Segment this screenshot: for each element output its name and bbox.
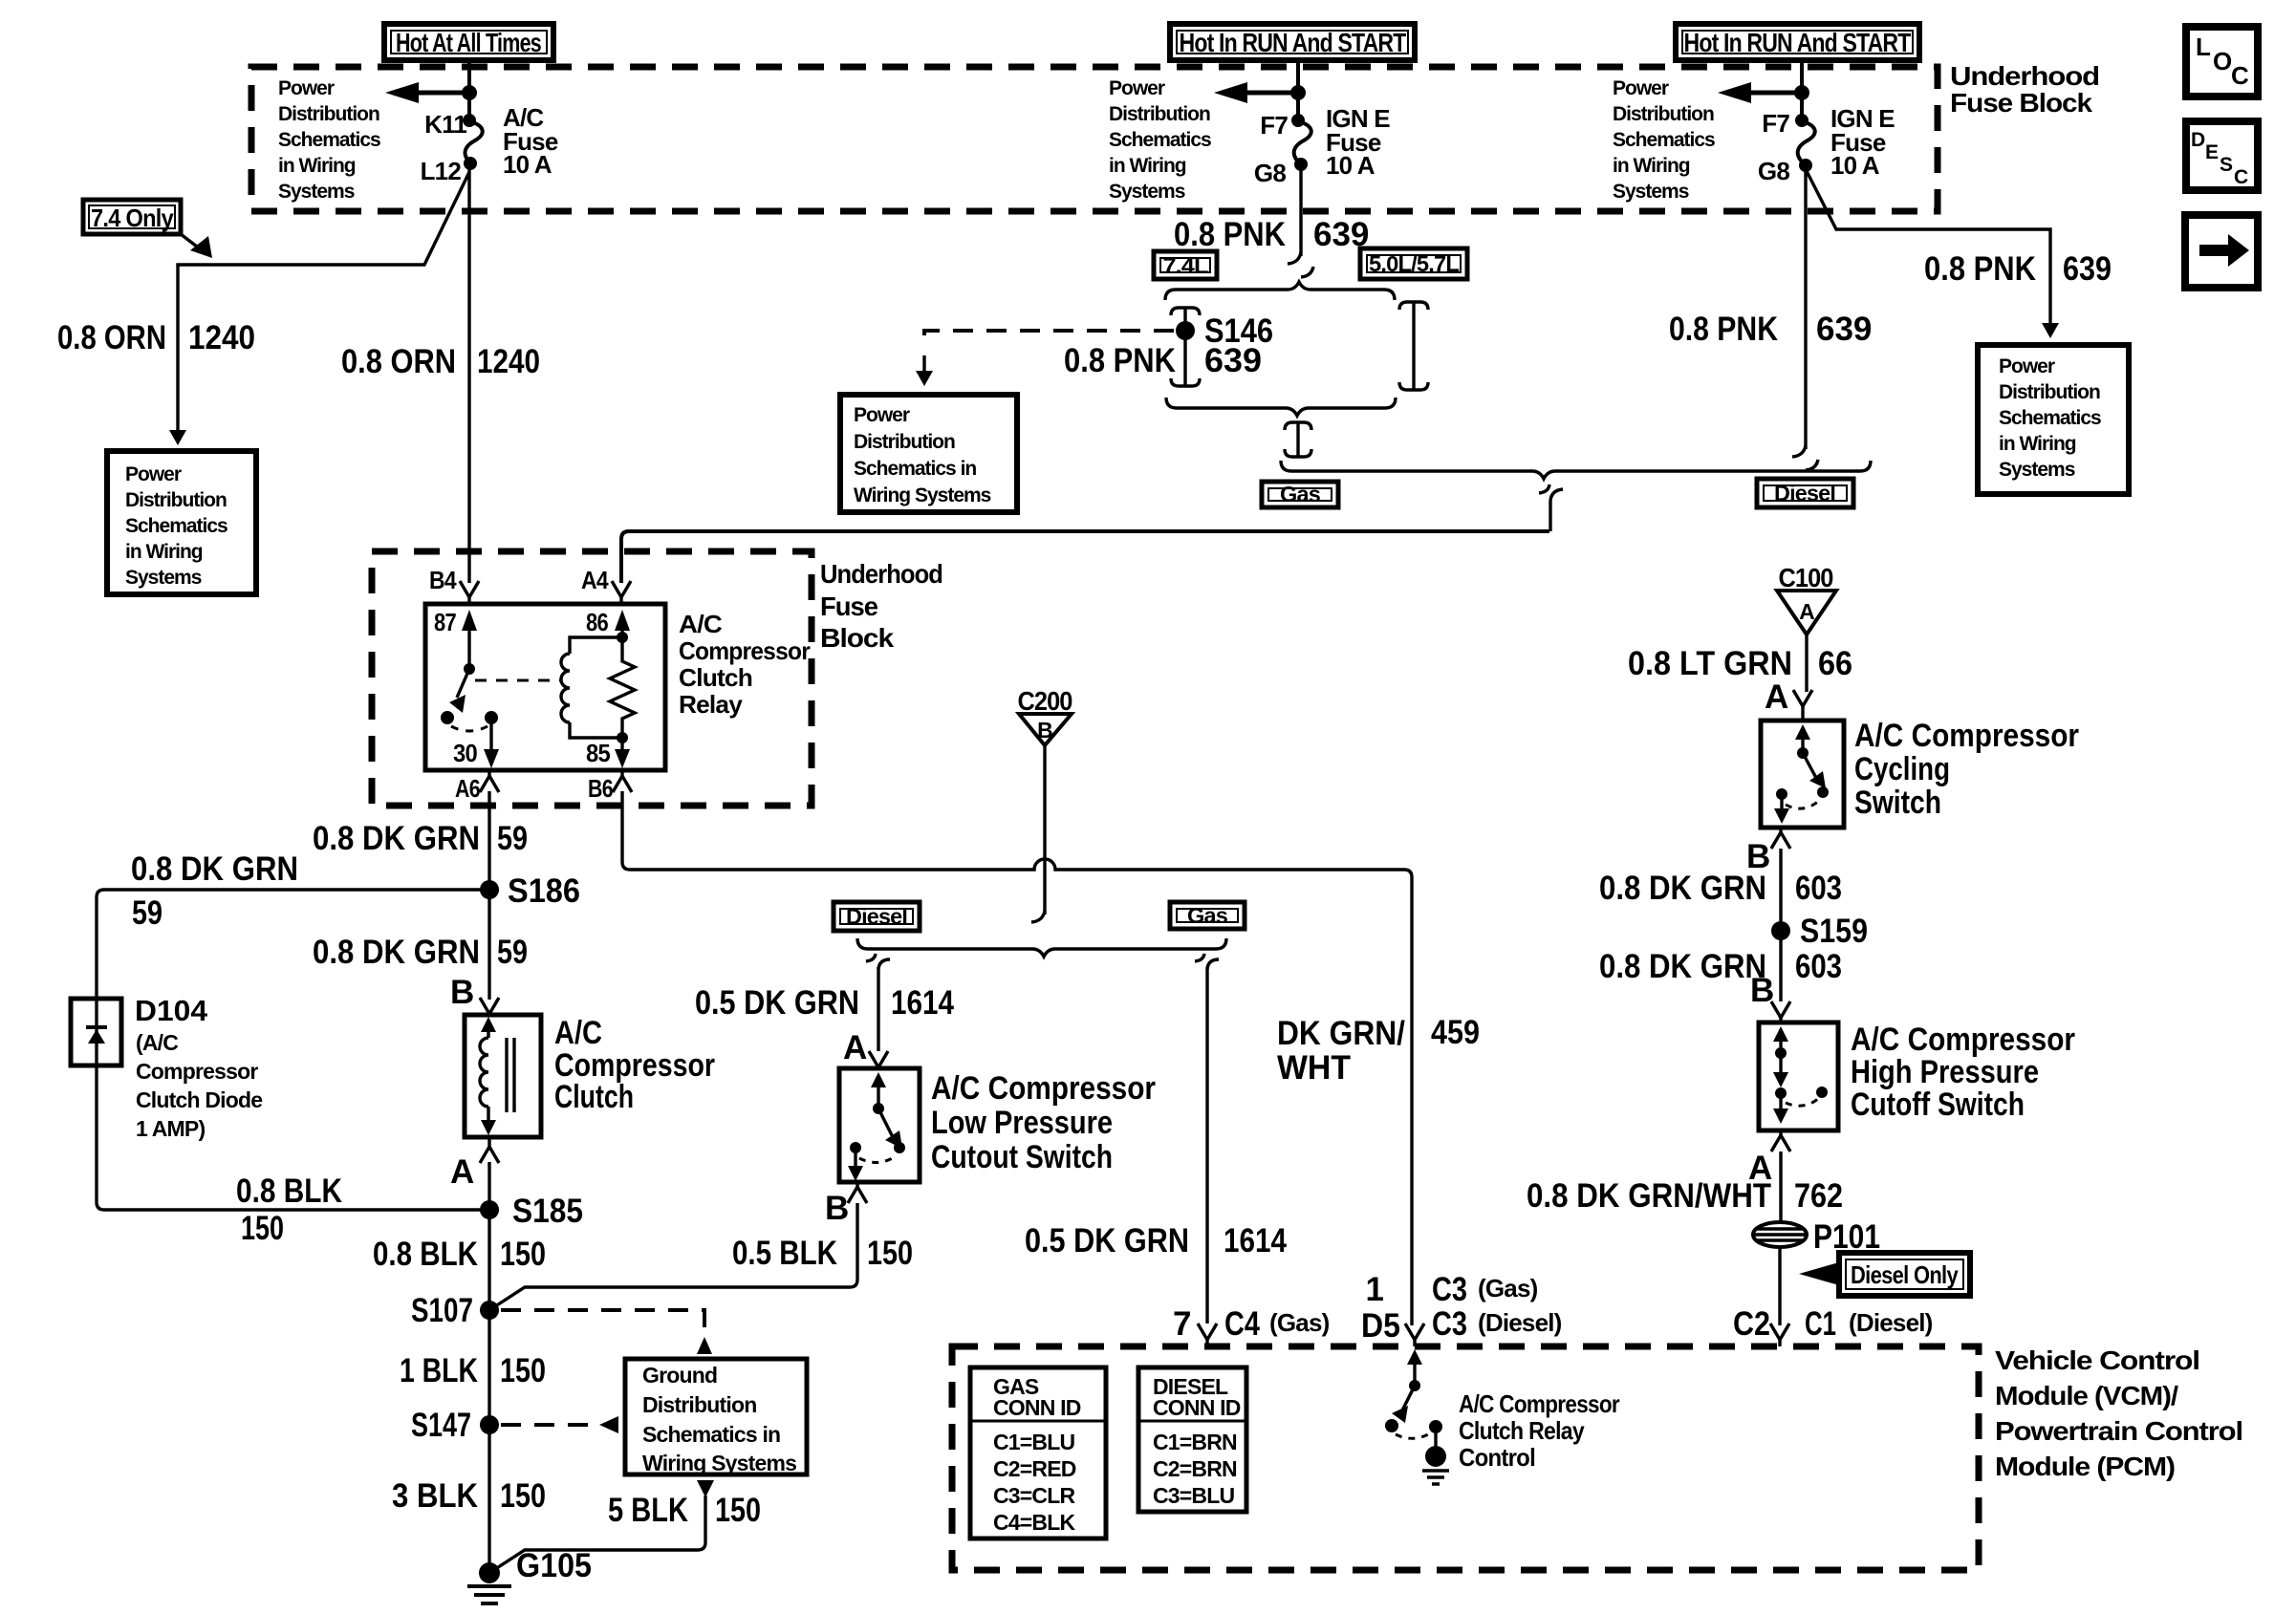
svg-text:Gas: Gas — [1280, 482, 1320, 506]
LP switch contacts — [848, 1072, 905, 1181]
wire cycling B to S159 — [1779, 849, 1782, 931]
wire clutch A to S185 — [487, 1162, 490, 1210]
svg-text:603: 603 — [1795, 948, 1842, 985]
VCM/PCM dashed box — [952, 1346, 1979, 1570]
svg-text:0.8 BLK: 0.8 BLK — [373, 1236, 478, 1273]
wire C200 down with break curl — [1031, 745, 1045, 922]
svg-text:Schematics: Schematics — [278, 129, 380, 151]
svg-text:85: 85 — [586, 739, 610, 767]
engine option bottom brace — [1166, 398, 1396, 416]
power distribution schematics box (S146) — [840, 395, 1017, 512]
5.0L/5.7L label box — [1360, 248, 1467, 279]
LOC box — [2186, 27, 2258, 97]
svg-text:0.8 ORN: 0.8 ORN — [57, 319, 166, 356]
wire label 0.8 BLK / 150 (diode branch) — [236, 1173, 342, 1247]
wire label 1 BLK 150 — [400, 1352, 546, 1389]
svg-text:C4: C4 — [1224, 1305, 1260, 1343]
svg-text:G105: G105 — [516, 1547, 592, 1584]
Diesel label box (top) — [1757, 479, 1853, 507]
relay coil — [561, 637, 622, 738]
LP switch pin B — [825, 1182, 867, 1227]
diesel branch wire with curl to LP switch — [866, 954, 890, 1051]
A/C compressor clutch relay box — [425, 604, 665, 770]
wire from Hot At All Times to A/C fuse — [467, 60, 471, 120]
svg-text:0.8 DK GRN: 0.8 DK GRN — [1599, 870, 1766, 907]
A/C Compressor Clutch Relay label — [679, 610, 811, 719]
svg-text:A: A — [843, 1029, 867, 1066]
svg-text:0.8 PNK: 0.8 PNK — [1924, 250, 2036, 288]
A/C compressor cycling switch box — [1761, 721, 1844, 828]
wire gas branch down to horizontal feed — [1539, 484, 1563, 531]
svg-text:Power: Power — [1613, 77, 1669, 99]
arrow from 7.4 Only box to wire — [181, 234, 212, 258]
wire label 0.8 DK GRN/WHT 762 — [1527, 1177, 1843, 1215]
svg-text:E: E — [2205, 141, 2219, 163]
7.4L label box — [1154, 251, 1217, 279]
wire label 0.8 PNK 639 (at S146) — [1064, 342, 1262, 379]
wire label 0.8 ORN 1240 (7.4 branch) — [57, 319, 255, 356]
diesel/gas selection brace (C200) — [857, 938, 1226, 957]
engine option top brace — [1165, 282, 1395, 300]
svg-text:C4=BLK: C4=BLK — [993, 1510, 1075, 1535]
wire label 0.5 DK GRN 1614 (gas) — [1025, 1222, 1287, 1259]
A/C Compressor Cycling Switch label — [1854, 718, 2079, 821]
wire G8 right fuse down with break curls — [1792, 169, 1818, 470]
svg-text:(A/C: (A/C — [136, 1030, 178, 1055]
clutch pin B — [450, 974, 499, 1014]
svg-text:Schematics: Schematics — [1109, 129, 1211, 151]
relay coil dashed link — [475, 679, 560, 682]
svg-text:Distribution: Distribution — [642, 1392, 756, 1417]
Diesel Only label box with arrow — [1799, 1253, 1970, 1296]
svg-text:Systems: Systems — [1109, 181, 1185, 203]
svg-text:Diesel: Diesel — [1774, 481, 1835, 506]
svg-text:Clutch: Clutch — [679, 663, 752, 692]
wire P101 to VCM C2 — [1778, 1248, 1781, 1325]
wire from Hot In RUN And START to IGN E fuse (right) — [1800, 60, 1804, 120]
svg-text:Cutout Switch: Cutout Switch — [931, 1139, 1113, 1175]
svg-text:Systems: Systems — [125, 567, 202, 589]
svg-text:in Wiring: in Wiring — [125, 541, 203, 563]
svg-text:Module (VCM)/: Module (VCM)/ — [1995, 1381, 2178, 1410]
svg-text:Schematics: Schematics — [125, 515, 227, 537]
Underhood Fuse Block text (relay) — [820, 559, 942, 653]
svg-text:in Wiring: in Wiring — [1613, 155, 1690, 177]
svg-text:Gas: Gas — [1187, 903, 1227, 928]
A/C compressor clutch box — [465, 1015, 541, 1137]
gas branch wire with curl down to VCM C4 — [1195, 954, 1219, 1323]
svg-text:762: 762 — [1794, 1177, 1843, 1215]
svg-text:Distribution: Distribution — [1109, 103, 1210, 125]
svg-text:1614: 1614 — [891, 984, 954, 1022]
svg-text:0.8 BLK: 0.8 BLK — [236, 1173, 342, 1210]
svg-text:0.5 DK GRN: 0.5 DK GRN — [695, 984, 859, 1022]
svg-text:CONN ID: CONN ID — [1153, 1395, 1241, 1420]
wire S107 to S147 — [487, 1310, 490, 1425]
Hot At All Times label box — [384, 24, 553, 60]
ground G105 — [467, 1547, 592, 1603]
svg-text:B: B — [825, 1190, 849, 1227]
svg-text:Hot In RUN And START: Hot In RUN And START — [1180, 28, 1407, 57]
cycling switch pin B — [1746, 828, 1790, 875]
svg-text:Compressor: Compressor — [679, 636, 811, 665]
power distribution text (left fuse) — [278, 77, 380, 203]
svg-text:1: 1 — [1366, 1271, 1384, 1308]
svg-text:A: A — [1765, 678, 1788, 716]
svg-text:(Diesel): (Diesel) — [1478, 1308, 1562, 1337]
svg-text:DK GRN/: DK GRN/ — [1277, 1015, 1405, 1052]
HP switch dashed arc — [1786, 1099, 1818, 1106]
svg-text:S159: S159 — [1800, 913, 1868, 950]
svg-text:(Diesel): (Diesel) — [1849, 1308, 1933, 1337]
svg-text:0.8 PNK: 0.8 PNK — [1669, 311, 1778, 348]
A/C compressor low pressure cutout switch box — [839, 1068, 920, 1182]
svg-text:1 BLK: 1 BLK — [400, 1352, 478, 1389]
svg-text:O: O — [2213, 47, 2232, 75]
svg-text:C: C — [2231, 61, 2249, 90]
svg-text:87: 87 — [434, 608, 456, 636]
Underhood Fuse Block title text — [1950, 61, 2099, 118]
svg-text:Fuse: Fuse — [820, 592, 877, 621]
svg-text:Schematics: Schematics — [1613, 129, 1715, 151]
svg-text:Distribution: Distribution — [1613, 103, 1714, 125]
A/C Compressor Low Pressure Cutout Switch label — [931, 1070, 1156, 1175]
A/C Compressor Clutch Relay Control label — [1459, 1389, 1620, 1472]
svg-text:10 A: 10 A — [1830, 151, 1880, 180]
svg-text:Underhood: Underhood — [820, 559, 942, 589]
svg-text:C2=BRN: C2=BRN — [1153, 1456, 1237, 1481]
svg-text:7: 7 — [1173, 1305, 1191, 1343]
svg-text:Power: Power — [278, 77, 335, 99]
svg-text:A6: A6 — [455, 774, 480, 803]
svg-text:Schematics in: Schematics in — [854, 458, 976, 480]
Gas label box (C200) — [1170, 902, 1245, 929]
wire S186 to clutch B — [487, 890, 490, 1000]
clutch pin A — [450, 1137, 499, 1191]
arrow to power distribution (left fuse) — [385, 82, 477, 103]
svg-text:5 BLK: 5 BLK — [608, 1492, 688, 1529]
Diesel label box (C200) — [834, 902, 920, 931]
7.4L branch connector brackets with S146 — [1171, 308, 1200, 386]
svg-text:1 AMP): 1 AMP) — [136, 1116, 205, 1141]
svg-text:C100: C100 — [1779, 563, 1833, 592]
svg-text:7.4L: 7.4L — [1163, 253, 1209, 278]
svg-text:0.8 PNK: 0.8 PNK — [1064, 342, 1176, 379]
relay pin A4 — [581, 566, 631, 604]
svg-text:C3: C3 — [1432, 1271, 1467, 1308]
power distribution schematics box (7.4 branch) — [107, 451, 256, 594]
A/C Compressor High Pressure Cutoff Switch label — [1851, 1022, 2075, 1123]
wire label 0.8 DK GRN 59 (lower) — [313, 934, 528, 971]
clutch core bars — [507, 1038, 514, 1112]
power distribution text (right fuse) — [1613, 77, 1715, 203]
svg-text:603: 603 — [1795, 870, 1842, 907]
svg-text:B: B — [450, 974, 474, 1011]
GAS CONN ID table — [970, 1367, 1106, 1539]
svg-text:A/C Compressor: A/C Compressor — [931, 1070, 1156, 1107]
svg-text:F7: F7 — [1762, 109, 1789, 138]
svg-text:Fuse Block: Fuse Block — [1950, 88, 2093, 118]
svg-text:Control: Control — [1459, 1443, 1535, 1472]
svg-text:0.8 ORN: 0.8 ORN — [341, 343, 456, 380]
A/C compressor clutch relay control driver — [1385, 1349, 1449, 1484]
svg-text:G8: G8 — [1758, 157, 1789, 185]
7.4 Only label box — [83, 200, 181, 234]
grommet P101 — [1753, 1218, 1880, 1256]
wire B6 to DK GRN/WHT column with hop over C200 wire — [622, 791, 1412, 1325]
relay pin 86 — [586, 608, 630, 643]
svg-text:0.8 LT GRN: 0.8 LT GRN — [1628, 645, 1792, 682]
wire S159 to HP switch — [1779, 931, 1782, 1001]
svg-text:0.8 DK GRN/WHT: 0.8 DK GRN/WHT — [1527, 1177, 1771, 1215]
DESC box — [2186, 121, 2258, 190]
A/C Compressor Clutch label — [554, 1015, 715, 1115]
clutch coil — [480, 1017, 496, 1135]
wire label 0.5 DK GRN 1614 (diesel) — [695, 984, 954, 1022]
svg-text:F7: F7 — [1260, 111, 1288, 140]
wire label 0.8 ORN 1240 (main) — [341, 343, 540, 380]
cycling switch pin A — [1765, 678, 1812, 721]
wire label 0.8 DK GRN 603 (lower) — [1599, 948, 1842, 985]
splice S185 — [480, 1193, 583, 1230]
svg-text:C200: C200 — [1018, 686, 1072, 716]
svg-text:S: S — [2220, 154, 2233, 176]
relay pin 87 contact arm — [434, 608, 477, 724]
relay pin 30 — [453, 711, 499, 768]
splice S146 — [1176, 312, 1273, 350]
svg-text:Power: Power — [1999, 355, 2055, 377]
wire label 0.8 BLK 150 — [373, 1236, 546, 1273]
svg-text:Clutch Diode: Clutch Diode — [136, 1087, 262, 1112]
svg-text:L12: L12 — [421, 157, 462, 185]
svg-text:3 BLK: 3 BLK — [392, 1477, 478, 1515]
splice S159 — [1771, 913, 1868, 950]
svg-text:D: D — [2191, 129, 2205, 151]
dashed S107 to ground distribution box — [501, 1310, 712, 1354]
svg-text:L: L — [2196, 32, 2211, 61]
svg-text:C1=BLU: C1=BLU — [993, 1430, 1074, 1454]
svg-text:D5: D5 — [1361, 1307, 1400, 1345]
ground distribution schematics box — [625, 1359, 807, 1475]
VCM pin 7 C4 (Gas) — [1173, 1305, 1330, 1346]
svg-text:86: 86 — [586, 608, 608, 636]
splice S107 — [411, 1292, 499, 1329]
wire S147 to G105 — [487, 1425, 490, 1573]
wire label 0.8 DK GRN 603 (upper) — [1599, 870, 1842, 907]
svg-text:C3=BLU: C3=BLU — [1153, 1483, 1234, 1508]
svg-text:Power: Power — [1109, 77, 1165, 99]
IGN E fuse F7-G8 (middle) — [1254, 104, 1390, 187]
svg-text:459: 459 — [1431, 1014, 1480, 1051]
svg-text:A/C Compressor: A/C Compressor — [1459, 1389, 1620, 1418]
svg-text:A/C Compressor: A/C Compressor — [1854, 718, 2079, 754]
svg-text:Hot At All Times: Hot At All Times — [396, 28, 541, 57]
svg-text:B6: B6 — [588, 774, 613, 803]
wire label 0.8 PNK 639 (right fuse main) — [1669, 311, 1872, 348]
svg-text:B4: B4 — [429, 566, 457, 594]
splice S147 — [411, 1407, 499, 1444]
svg-text:in Wiring: in Wiring — [1109, 155, 1186, 177]
svg-text:150: 150 — [867, 1235, 913, 1272]
svg-text:Underhood: Underhood — [1950, 61, 2099, 91]
wire L12 down to relay B4 — [467, 167, 470, 583]
svg-text:High Pressure: High Pressure — [1851, 1054, 2039, 1090]
svg-text:0.8 DK GRN: 0.8 DK GRN — [1599, 948, 1766, 985]
connector C200 — [1018, 686, 1072, 745]
svg-text:Ground: Ground — [642, 1363, 717, 1388]
arrow to power distribution (right fuse) — [1718, 82, 1809, 103]
svg-text:Cutoff Switch: Cutoff Switch — [1851, 1087, 2025, 1123]
relay resistor — [610, 637, 635, 743]
svg-text:C2=RED: C2=RED — [993, 1456, 1076, 1481]
A/C fuse K11-L12 — [421, 103, 558, 185]
svg-text:0.8 DK GRN: 0.8 DK GRN — [131, 850, 298, 888]
svg-text:7.4 Only: 7.4 Only — [91, 204, 174, 232]
svg-text:Vehicle Control: Vehicle Control — [1995, 1345, 2199, 1375]
A/C compressor high pressure cutoff switch box — [1759, 1022, 1838, 1130]
svg-text:Diesel Only: Diesel Only — [1851, 1260, 1959, 1289]
underhood fuse block relay dashed box — [372, 551, 812, 806]
svg-text:5.0L/5.7L: 5.0L/5.7L — [1369, 251, 1460, 276]
svg-text:Clutch Relay: Clutch Relay — [1459, 1416, 1585, 1445]
svg-text:(Gas): (Gas) — [1269, 1308, 1330, 1337]
svg-text:A/C: A/C — [554, 1015, 602, 1051]
svg-text:1614: 1614 — [1224, 1222, 1287, 1259]
svg-text:in Wiring: in Wiring — [1999, 433, 2076, 455]
right fuse branch diagonal to power distribution — [1806, 169, 2059, 338]
svg-text:C3: C3 — [1432, 1305, 1467, 1343]
wire S185 to S107 — [487, 1210, 490, 1310]
svg-text:C3=CLR: C3=CLR — [993, 1483, 1075, 1508]
svg-text:150: 150 — [241, 1210, 284, 1247]
wire label 0.8 PNK 639 (middle fuse) — [1174, 216, 1369, 253]
VCM pin D5 C3 — [1361, 1271, 1562, 1346]
svg-text:639: 639 — [1816, 311, 1872, 348]
power distribution schematics box (right) — [1978, 345, 2129, 494]
svg-text:(Gas): (Gas) — [1478, 1274, 1538, 1302]
svg-text:Switch: Switch — [1854, 785, 1941, 821]
svg-text:C1: C1 — [1805, 1305, 1836, 1343]
wire HP A to P101 — [1779, 1151, 1782, 1221]
svg-text:B: B — [1037, 718, 1052, 742]
wire S186 to diode branch — [97, 890, 489, 999]
svg-text:Cycling: Cycling — [1854, 751, 1950, 787]
svg-text:S147: S147 — [411, 1407, 471, 1444]
inline connector pair below braces — [1285, 422, 1311, 457]
ground box bottom arrow and 5 BLK 150 wire — [489, 1480, 714, 1573]
svg-text:S186: S186 — [508, 872, 580, 910]
wire G8 down with break curl (middle) — [1288, 168, 1313, 277]
DIESEL CONN ID table — [1138, 1367, 1246, 1512]
svg-text:Distribution: Distribution — [125, 489, 227, 511]
svg-text:G8: G8 — [1254, 159, 1286, 187]
svg-text:A/C Compressor: A/C Compressor — [1851, 1022, 2075, 1058]
Gas label box (top) — [1262, 482, 1338, 507]
cycling switch dashed arc — [1786, 801, 1819, 808]
relay pin B4 — [429, 566, 479, 604]
svg-text:Distribution: Distribution — [278, 103, 379, 125]
svg-text:59: 59 — [497, 934, 528, 971]
wire label 5 BLK 150 — [608, 1492, 761, 1529]
svg-text:0.8 DK GRN: 0.8 DK GRN — [313, 820, 480, 857]
horizontal feed wire to relay A4 — [621, 531, 1549, 583]
diode symbol — [86, 999, 107, 1065]
svg-text:Power: Power — [854, 404, 910, 426]
svg-text:Systems: Systems — [1999, 459, 2075, 481]
wire label 0.8 DK GRN 59 (upper) — [313, 820, 528, 857]
svg-text:A4: A4 — [581, 566, 609, 594]
wire label 0.8 LT GRN 66 — [1628, 645, 1852, 682]
svg-text:Wiring Systems: Wiring Systems — [854, 484, 991, 506]
svg-text:WHT: WHT — [1277, 1049, 1351, 1087]
gas/diesel selection brace — [1281, 461, 1871, 479]
svg-text:A/C: A/C — [679, 610, 723, 638]
svg-text:1240: 1240 — [188, 319, 255, 356]
5.0L/5.7L branch connector brackets — [1399, 302, 1428, 390]
svg-text:C: C — [2234, 166, 2248, 188]
LP switch dashed arc — [859, 1156, 896, 1163]
wire A6 to S186 — [487, 791, 490, 890]
arrow to power distribution (middle fuse) — [1214, 82, 1306, 103]
D104 label — [135, 994, 262, 1141]
svg-text:Block: Block — [820, 623, 895, 653]
svg-text:CONN ID: CONN ID — [993, 1395, 1081, 1420]
wire label 0.5 BLK 150 — [732, 1235, 913, 1272]
svg-text:Schematics in: Schematics in — [642, 1422, 780, 1447]
Hot In RUN And START label box (right) — [1676, 24, 1919, 60]
wire label 3 BLK 150 — [392, 1477, 546, 1515]
wire label DK GRN/WHT 459 — [1277, 1014, 1480, 1087]
svg-text:0.5 BLK: 0.5 BLK — [732, 1235, 837, 1272]
relay pin B6 — [588, 770, 632, 803]
HP switch pin B — [1750, 972, 1790, 1022]
LP switch pin A — [843, 1029, 888, 1067]
wire from Hot In RUN And START to IGN E fuse (middle) — [1296, 60, 1300, 120]
svg-text:150: 150 — [500, 1236, 546, 1273]
wire label 0.8 PNK 639 (right branch) — [1924, 250, 2112, 288]
Vehicle Control Module label — [1995, 1345, 2242, 1481]
VCM pin C2 C1 (Diesel) — [1733, 1305, 1933, 1346]
svg-text:Systems: Systems — [1613, 181, 1689, 203]
svg-text:150: 150 — [715, 1492, 761, 1529]
svg-text:0.5 DK GRN: 0.5 DK GRN — [1025, 1222, 1189, 1259]
HP switch pin A — [1748, 1130, 1790, 1187]
svg-text:S185: S185 — [512, 1193, 583, 1230]
svg-text:A: A — [450, 1153, 474, 1191]
svg-text:Diesel: Diesel — [846, 904, 907, 929]
svg-text:150: 150 — [500, 1477, 546, 1515]
wire L12 to 7.4 branch (diagonal + horizontal + down arrow) — [169, 172, 469, 445]
relay armature dashed arc — [451, 726, 487, 731]
Hot In RUN And START label box (middle) — [1170, 24, 1415, 60]
svg-text:Powertrain Control: Powertrain Control — [1995, 1416, 2242, 1446]
power distribution text (middle fuse) — [1109, 77, 1211, 203]
svg-text:Module (PCM): Module (PCM) — [1995, 1452, 2175, 1481]
svg-text:Relay: Relay — [679, 690, 743, 719]
svg-text:Power: Power — [125, 463, 182, 485]
svg-text:C2: C2 — [1733, 1305, 1770, 1343]
dashed S147 to ground distribution box — [501, 1416, 618, 1433]
svg-text:639: 639 — [2063, 250, 2112, 288]
svg-text:in Wiring: in Wiring — [278, 155, 356, 177]
svg-text:66: 66 — [1818, 645, 1852, 682]
cycling switch contacts — [1774, 724, 1829, 824]
svg-text:Distribution: Distribution — [854, 431, 955, 453]
underhood fuse block dashed box — [251, 67, 1938, 211]
svg-text:Wiring Systems: Wiring Systems — [642, 1451, 796, 1475]
svg-text:59: 59 — [497, 820, 528, 857]
wire LP B to S107 — [489, 1203, 857, 1310]
